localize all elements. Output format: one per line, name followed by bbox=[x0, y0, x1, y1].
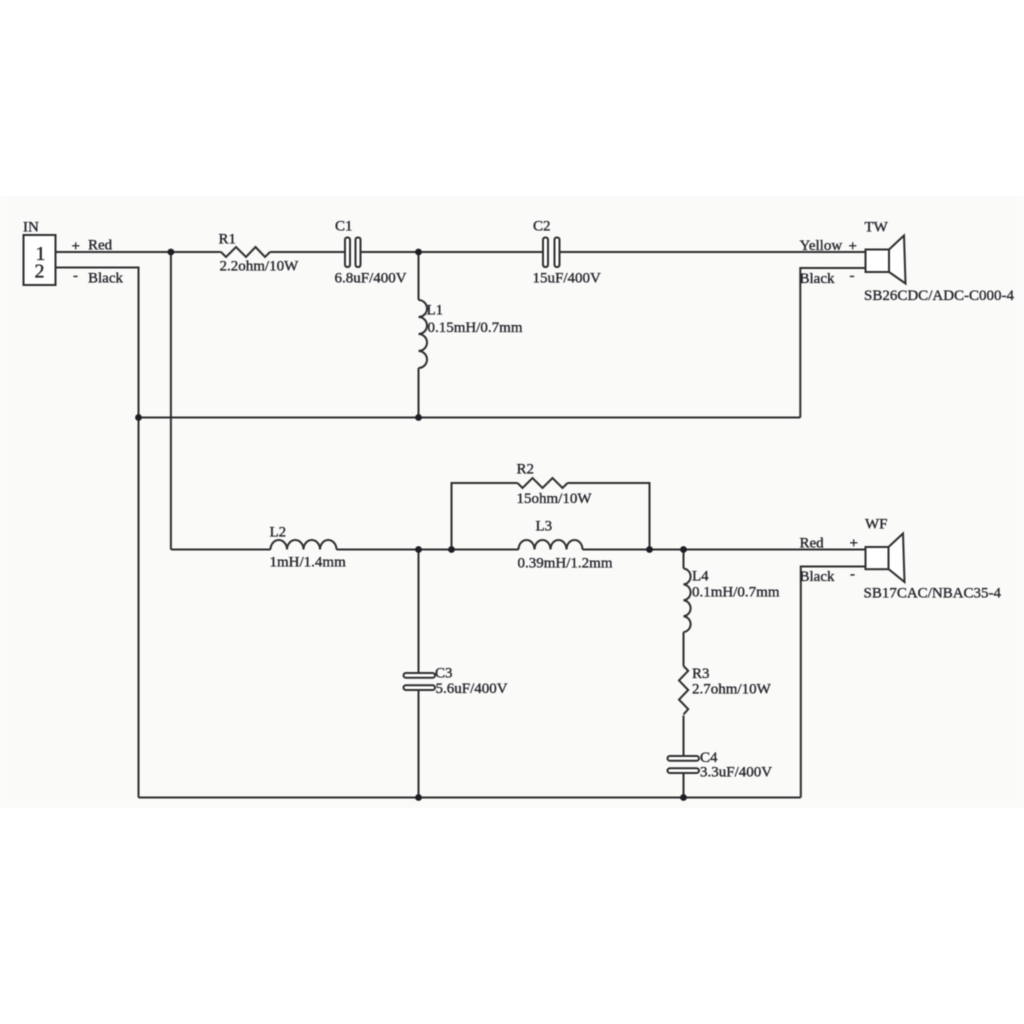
svg-text:+: + bbox=[849, 239, 857, 255]
speaker WF horn bbox=[889, 534, 905, 583]
capacitor C2 plates bbox=[543, 238, 548, 268]
svg-text:L3: L3 bbox=[536, 519, 553, 535]
inductor L3 bbox=[519, 540, 583, 550]
svg-text:-: - bbox=[850, 567, 855, 583]
svg-text:L2: L2 bbox=[270, 525, 287, 541]
wire R1 to C1 bbox=[270, 251, 345, 253]
wire R3 to C4 bbox=[683, 716, 685, 756]
svg-text:SB26CDC/ADC-C000-4: SB26CDC/ADC-C000-4 bbox=[864, 288, 1015, 304]
svg-text:R2: R2 bbox=[517, 462, 535, 478]
svg-text:R3: R3 bbox=[692, 666, 710, 682]
svg-text:2.7ohm/10W: 2.7ohm/10W bbox=[692, 682, 772, 698]
svg-text:6.8uF/400V: 6.8uF/400V bbox=[335, 271, 407, 287]
inductor L4 bbox=[684, 569, 691, 633]
wire L4 to R3 bbox=[683, 632, 685, 666]
svg-text:2: 2 bbox=[35, 261, 45, 283]
svg-text:SB17CAC/NBAC35-4: SB17CAC/NBAC35-4 bbox=[864, 586, 1002, 602]
svg-text:3.3uF/400V: 3.3uF/400V bbox=[700, 765, 772, 781]
wire L3 to WF plus bbox=[583, 549, 867, 551]
wire node B down to L1 bbox=[418, 252, 420, 300]
wire L2 to L3 bbox=[337, 549, 519, 551]
wire R2 left leg bbox=[452, 483, 518, 550]
speaker TW body bbox=[866, 250, 890, 273]
scan background band bbox=[0, 196, 1024, 808]
wire L1 to ground rail bbox=[418, 368, 420, 418]
capacitor C4 plates bbox=[668, 756, 700, 761]
svg-text:C2: C2 bbox=[533, 219, 551, 235]
junction R2 left bbox=[448, 546, 455, 553]
junction node C bbox=[415, 546, 422, 553]
capacitor C1 plates bbox=[345, 238, 350, 268]
resistor R2 bbox=[518, 478, 568, 488]
svg-text:0.39mH/1.2mm: 0.39mH/1.2mm bbox=[518, 556, 613, 572]
connector J1 IN box bbox=[24, 235, 56, 285]
wire node C down to C3 bbox=[418, 550, 420, 673]
capacitor C3 plates bbox=[404, 673, 436, 678]
wire woofer rail left to L2 bbox=[171, 549, 271, 551]
svg-text:C1: C1 bbox=[335, 219, 353, 235]
svg-text:IN: IN bbox=[23, 220, 39, 236]
wire IN pin2 down left side bbox=[56, 268, 139, 798]
svg-text:5.6uF/400V: 5.6uF/400V bbox=[436, 681, 508, 697]
svg-text:Black: Black bbox=[88, 271, 123, 287]
wire WF minus return bbox=[801, 567, 866, 798]
svg-text:Red: Red bbox=[88, 238, 113, 254]
wire node B to C2 bbox=[419, 251, 544, 253]
junction node A bbox=[168, 249, 175, 256]
svg-text:L1: L1 bbox=[427, 303, 444, 319]
svg-text:C3: C3 bbox=[435, 666, 453, 682]
wire TW minus return bbox=[800, 268, 865, 418]
resistor R1 bbox=[221, 247, 270, 257]
svg-text:-: - bbox=[73, 268, 78, 284]
junction R2 right bbox=[646, 546, 653, 553]
wire node A vertical to woofer rail bbox=[170, 252, 172, 550]
inductor L2 bbox=[271, 540, 337, 550]
svg-text:Yellow: Yellow bbox=[800, 238, 843, 254]
inductor L1 bbox=[419, 300, 428, 368]
svg-text:2.2ohm/10W: 2.2ohm/10W bbox=[220, 259, 300, 275]
wire IN pin1 to R1 bbox=[56, 251, 222, 253]
wire tweeter ground rail bbox=[139, 417, 801, 419]
junction C3 bottom bbox=[415, 794, 422, 801]
svg-text:R1: R1 bbox=[219, 232, 237, 248]
junction node B bbox=[415, 249, 422, 256]
svg-text:1mH/1.4mm: 1mH/1.4mm bbox=[270, 555, 347, 571]
svg-text:L4: L4 bbox=[692, 569, 709, 585]
junction left ground bbox=[135, 414, 142, 421]
svg-text:-: - bbox=[850, 268, 855, 284]
svg-text:Black: Black bbox=[800, 271, 835, 287]
wire C3 to bottom rail bbox=[418, 691, 420, 798]
svg-text:Red: Red bbox=[800, 536, 825, 552]
svg-text:Black: Black bbox=[800, 569, 835, 585]
wire node D down to L4 bbox=[683, 550, 685, 569]
wire C2 to TW plus bbox=[560, 251, 866, 253]
svg-text:TW: TW bbox=[865, 220, 889, 236]
speaker TW horn bbox=[889, 236, 906, 284]
svg-text:0.1mH/0.7mm: 0.1mH/0.7mm bbox=[692, 585, 780, 601]
svg-text:0.15mH/0.7mm: 0.15mH/0.7mm bbox=[428, 320, 523, 336]
svg-text:WF: WF bbox=[865, 517, 888, 533]
junction L1 ground bbox=[415, 414, 422, 421]
resistor R3 bbox=[679, 666, 688, 715]
junction node D bbox=[680, 546, 687, 553]
svg-text:15uF/400V: 15uF/400V bbox=[533, 271, 602, 287]
wire C1 to node B bbox=[361, 251, 419, 253]
junction C4 bottom bbox=[680, 794, 687, 801]
svg-text:+: + bbox=[850, 536, 858, 552]
svg-text:15ohm/10W: 15ohm/10W bbox=[517, 491, 593, 507]
svg-text:+: + bbox=[72, 239, 80, 255]
wire C4 to bottom rail bbox=[683, 774, 685, 798]
wire R2 right leg bbox=[568, 483, 650, 550]
speaker WF body bbox=[866, 547, 889, 569]
wire bottom ground rail bbox=[139, 797, 801, 799]
